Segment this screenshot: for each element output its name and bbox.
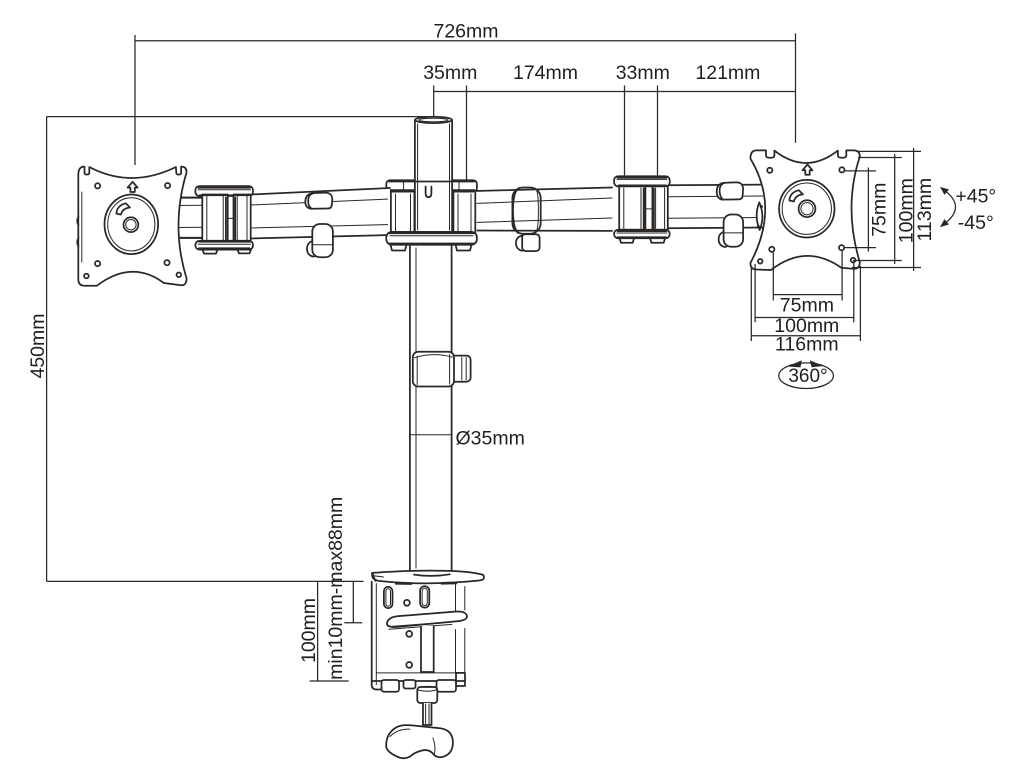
- svg-text:100mm: 100mm: [298, 598, 320, 663]
- bracket hole 1: [404, 600, 410, 606]
- left joint tie: [228, 217, 234, 219]
- svg-text:min10mm-max88mm: min10mm-max88mm: [325, 497, 347, 680]
- cable clip strap right arm outer: [717, 182, 743, 199]
- cable clip box right arm inner: [516, 236, 525, 251]
- dimension 450mm line: [46, 117, 48, 582]
- svg-text:726mm: 726mm: [433, 21, 498, 43]
- cable clip loop right arm inner: [512, 188, 540, 234]
- svg-text:Ø35mm: Ø35mm: [456, 428, 525, 450]
- extension line 35 left: [433, 86, 435, 117]
- left plate screw holes: [95, 183, 100, 188]
- dimension 116mm bottom line: [751, 335, 860, 337]
- right joint tie: [645, 208, 652, 210]
- dimension 100mm bottom line: [755, 317, 854, 319]
- screw collar: [417, 687, 437, 703]
- clamp top plate: [372, 571, 484, 584]
- right plate up arrow: [803, 165, 813, 175]
- dimension 100mm vertical line: [894, 154, 896, 264]
- left joint bolts: [203, 250, 252, 254]
- bracket face right edges: [456, 585, 465, 675]
- bracket slot 2: [420, 586, 429, 607]
- right VESA plate outline: [750, 150, 859, 270]
- extension lines 75 bottom: [772, 253, 774, 301]
- bracket left wall: [372, 582, 382, 690]
- clamp screw rod upper: [421, 626, 434, 672]
- right plate screw holes: [767, 168, 772, 173]
- screw rod lower: [423, 703, 432, 725]
- svg-text:360°: 360°: [788, 366, 827, 387]
- extension line 33/121: [657, 86, 659, 176]
- extension line top 450: [47, 116, 431, 118]
- dimension min-max line: [352, 582, 354, 623]
- right plate crescent tab: [757, 202, 763, 230]
- tick bottom 100v: [853, 260, 902, 262]
- tick top 100v: [858, 157, 902, 159]
- left joint accents: [199, 188, 251, 249]
- right joint accents: [618, 178, 667, 238]
- tick bottom 113v: [852, 267, 921, 269]
- pole top cap: [415, 117, 452, 123]
- center bolts: [391, 245, 472, 251]
- tick bottom 100mm: [310, 680, 349, 682]
- svg-text:-45°: -45°: [958, 212, 994, 234]
- right plate arc slot: [789, 190, 803, 201]
- pole seam on plate: [414, 574, 450, 576]
- dimension 75mm bottom line: [773, 294, 842, 296]
- dimension 726mm line: [135, 40, 796, 42]
- svg-text:116mm: 116mm: [775, 334, 839, 356]
- svg-text:174mm: 174mm: [513, 62, 578, 84]
- 360deg rotation oval: [779, 363, 834, 389]
- tilt arc arrow: [942, 189, 956, 226]
- svg-text:450mm: 450mm: [27, 313, 49, 378]
- right joint posts: [619, 186, 645, 229]
- svg-text:33mm: 33mm: [616, 62, 670, 84]
- bracket bottom strip: [377, 672, 466, 674]
- bracket hole 2: [406, 631, 412, 637]
- svg-text:+45°: +45°: [955, 186, 996, 208]
- pole upper body: [415, 120, 452, 233]
- dimension tier2 line: [434, 91, 796, 93]
- dimension 75mm vertical line: [867, 168, 869, 252]
- left plate arc slot: [116, 203, 129, 214]
- left plate disc: [105, 195, 159, 255]
- bracket hole 3: [406, 662, 412, 668]
- pole lower body: [410, 243, 452, 572]
- left plate up arrow: [128, 182, 138, 192]
- extension line right 726/121: [795, 33, 797, 142]
- svg-text:113mm: 113mm: [914, 178, 936, 242]
- extension line 174/33: [624, 86, 626, 176]
- right joint bolts: [620, 238, 666, 243]
- left joint bottom flange: [195, 241, 253, 250]
- dimension 100mm line (clamp): [317, 581, 319, 681]
- cable clip box right arm outer: [719, 232, 727, 247]
- clamp middle pad: [387, 612, 467, 627]
- svg-text:121mm: 121mm: [695, 62, 760, 84]
- right plate disc: [779, 180, 834, 238]
- bracket feet: [382, 680, 400, 692]
- center bottom flange: [386, 232, 477, 245]
- pole section line: [410, 434, 451, 436]
- left arm main segment: [250, 188, 390, 239]
- cable holder side tab: [450, 356, 471, 382]
- svg-text:75mm: 75mm: [780, 294, 834, 316]
- left VESA plate outline: [78, 167, 186, 286]
- left joint posts: [202, 195, 227, 242]
- center assembly side bodies: [388, 193, 414, 237]
- extension line left 726: [134, 35, 136, 165]
- right arm outer segment: [667, 185, 763, 229]
- bracket slot 1: [384, 587, 393, 608]
- center clamp top flange: [386, 180, 477, 192]
- tick top 75v: [845, 170, 876, 172]
- cable holder box: [413, 352, 454, 387]
- svg-text:35mm: 35mm: [423, 62, 477, 84]
- left joint top flange: [195, 186, 253, 196]
- plate underside bolts: [395, 582, 457, 585]
- right joint top flange: [614, 176, 670, 186]
- extension line bottom 450/desk: [47, 580, 364, 582]
- left arm outer segment: [177, 198, 204, 239]
- center posts: [391, 193, 475, 237]
- cable clip box left arm: [307, 241, 316, 256]
- extension lines 116 bottom: [750, 266, 752, 341]
- tick top 113v: [856, 150, 921, 152]
- left plate center hole: [123, 217, 138, 232]
- right arm inner segment: [474, 188, 612, 231]
- center assembly accents: [389, 182, 475, 244]
- extension lines 100 bottom: [754, 264, 756, 322]
- svg-text:75mm: 75mm: [869, 183, 891, 237]
- extension line 35/174: [466, 86, 468, 180]
- clamp knob: [386, 725, 453, 758]
- right plate center hole: [799, 200, 816, 217]
- pole hook tab: [426, 187, 432, 198]
- tick bottom min-max: [344, 622, 362, 624]
- dimension 113mm vertical line: [913, 148, 915, 271]
- right joint bottom flange: [614, 230, 670, 239]
- cable clip strap left arm: [305, 193, 332, 209]
- tick bottom 75v: [845, 247, 876, 249]
